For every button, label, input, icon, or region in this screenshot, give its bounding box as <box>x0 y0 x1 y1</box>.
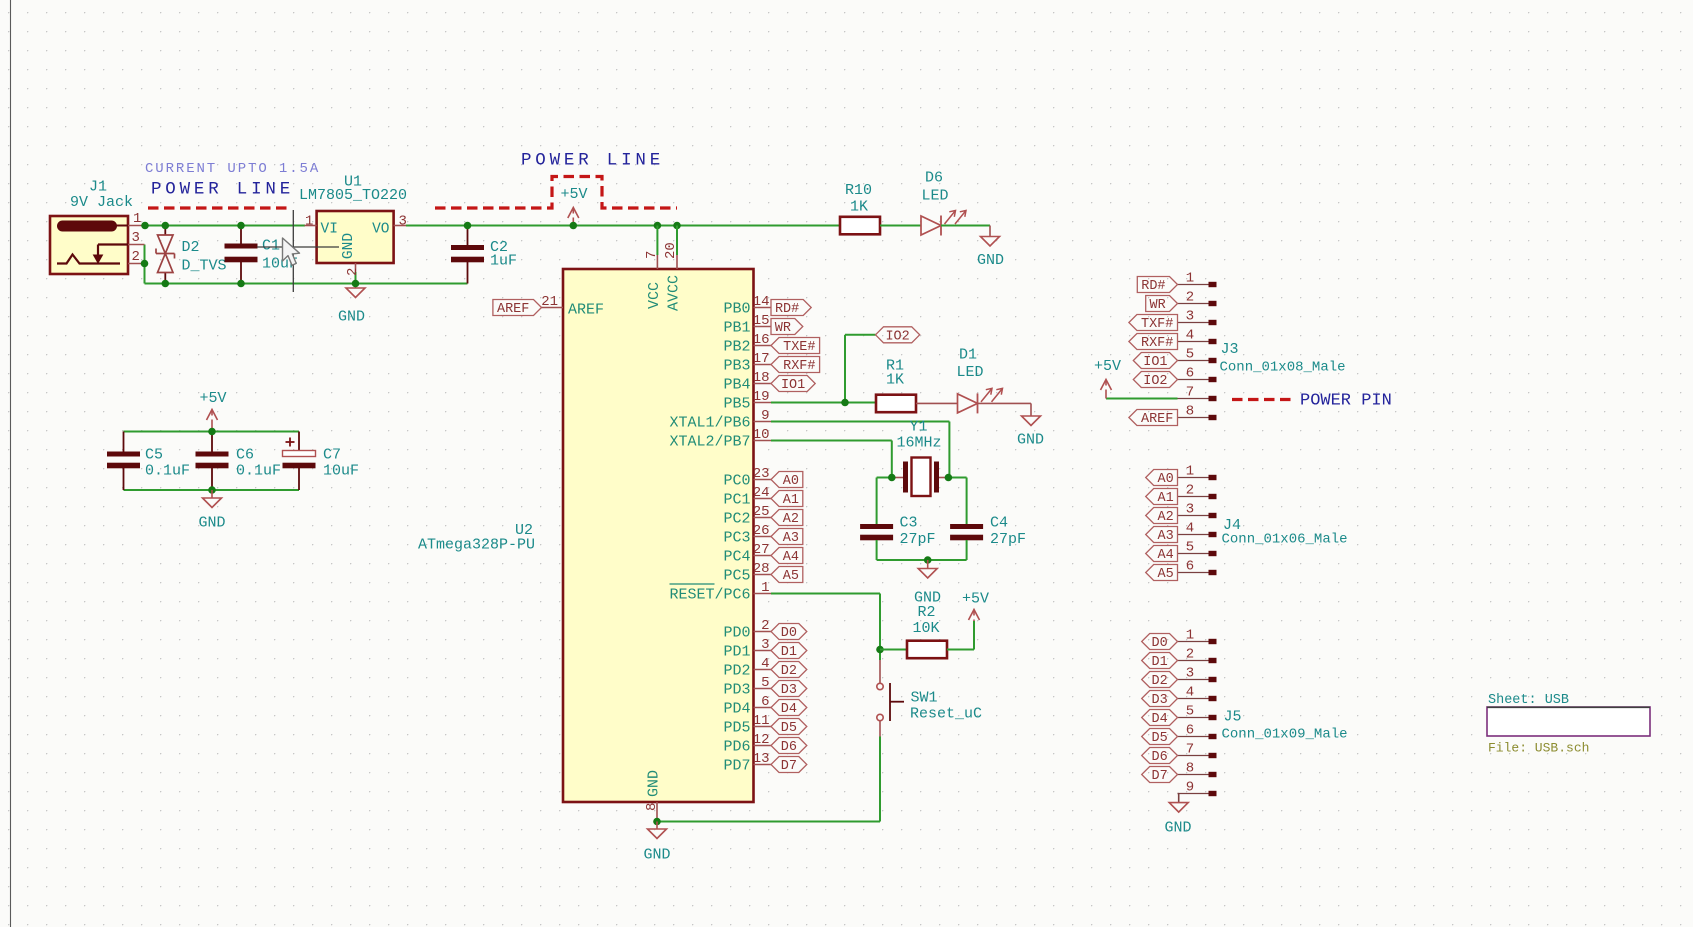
svg-text:+5V: +5V <box>200 390 227 407</box>
U2 pin 24 PC1 <box>754 498 772 500</box>
svg-text:Sheet: USB: Sheet: USB <box>1488 693 1569 708</box>
svg-text:GND: GND <box>1165 820 1192 837</box>
wire J1 pin1 to U1 VI <box>145 225 305 227</box>
svg-text:26: 26 <box>753 523 770 539</box>
capacitor C5 0.1uF <box>123 432 125 452</box>
J3 pin 6 label IO2 <box>1178 379 1209 381</box>
J5 pin 6 label D5 <box>1178 736 1209 738</box>
U2 pin 4 PD2 <box>754 669 772 671</box>
J5 pin 1 label D0 <box>1178 641 1209 643</box>
svg-text:15: 15 <box>753 313 770 329</box>
svg-text:0.1uF: 0.1uF <box>145 463 190 480</box>
LED D1 <box>958 394 978 413</box>
svg-text:D7: D7 <box>781 759 797 774</box>
J3 pin 8 label AREF <box>1178 417 1209 419</box>
svg-text:D6: D6 <box>781 740 797 755</box>
svg-text:LED: LED <box>957 364 984 381</box>
U2 pin 27 PC4 <box>754 555 772 557</box>
U1 pin 3 VO <box>394 225 406 227</box>
svg-text:Reset_uC: Reset_uC <box>910 706 982 723</box>
svg-text:11: 11 <box>753 713 770 729</box>
global label IO1 at U2 pin 18 <box>771 376 815 392</box>
svg-text:XTAL1/PB6: XTAL1/PB6 <box>669 415 750 432</box>
J1 pin 3 <box>128 244 145 246</box>
svg-text:D2: D2 <box>182 239 200 256</box>
U2 pin 23 PC0 <box>754 479 772 481</box>
svg-text:10K: 10K <box>913 620 940 637</box>
svg-text:IO1: IO1 <box>781 378 805 393</box>
svg-text:3: 3 <box>132 230 140 246</box>
U2 pin 26 PC3 <box>754 536 772 538</box>
LED D6 <box>921 216 941 235</box>
J5 pin 2 label D1 <box>1178 660 1209 662</box>
svg-text:RESET/PC6: RESET/PC6 <box>669 587 750 604</box>
svg-text:16: 16 <box>753 332 770 348</box>
wire bottom ground rail J1/D2/C1/GND/C2 <box>144 245 146 284</box>
svg-text:VI: VI <box>321 222 338 238</box>
ground symbol J5 <box>1169 803 1188 813</box>
J5 pin 5 label D4 <box>1178 717 1209 719</box>
wire SW1 to ground rail <box>879 721 881 737</box>
junction AVCC rail <box>673 222 681 230</box>
svg-text:4: 4 <box>1186 685 1194 701</box>
global label A1 at U2 pin 24 <box>771 491 803 507</box>
wire PB5 to R1 <box>771 402 876 404</box>
global label D6 at U2 pin 12 <box>771 738 807 754</box>
svg-text:PD7: PD7 <box>723 758 750 775</box>
svg-text:D6: D6 <box>925 170 943 187</box>
svg-text:D3: D3 <box>1151 693 1167 708</box>
svg-text:14: 14 <box>753 294 770 310</box>
svg-text:7: 7 <box>1186 742 1194 758</box>
global label A4 at U2 pin 27 <box>771 548 803 564</box>
svg-text:IO2: IO2 <box>1143 374 1167 389</box>
svg-text:WR: WR <box>775 321 791 336</box>
svg-text:D7: D7 <box>1151 769 1167 784</box>
wire XTAL2 to crystal left <box>771 440 892 442</box>
global label D3 at U2 pin 5 <box>771 681 807 697</box>
junction +5V rail <box>570 222 578 230</box>
svg-text:ATmega328P-PU: ATmega328P-PU <box>418 537 535 554</box>
junction J1 pin2 <box>141 260 149 268</box>
global label D7 at U2 pin 13 <box>771 757 807 773</box>
svg-text:C5: C5 <box>145 447 163 464</box>
global label WR at U2 pin 15 <box>771 319 803 335</box>
svg-text:D3: D3 <box>781 683 797 698</box>
svg-text:PD3: PD3 <box>723 682 750 699</box>
svg-text:C1: C1 <box>262 238 280 255</box>
svg-text:17: 17 <box>753 351 770 367</box>
U2 pin 5 PD3 <box>754 688 772 690</box>
wire R2 branch <box>880 649 907 651</box>
dashed power line (left segment) <box>148 206 291 209</box>
U2 pin 15 PB1 <box>754 326 772 328</box>
U2 pin 20 AVCC <box>676 226 678 256</box>
wire R2 to +5V <box>947 649 974 651</box>
J3 pin 5 label IO1 <box>1178 360 1209 362</box>
svg-text:21: 21 <box>541 294 558 310</box>
svg-text:2: 2 <box>345 268 361 276</box>
svg-text:27pF: 27pF <box>990 531 1026 548</box>
wire R1 to D1 <box>916 402 957 404</box>
svg-text:GND: GND <box>644 847 671 864</box>
svg-text:D4: D4 <box>1151 712 1167 727</box>
svg-text:A1: A1 <box>1157 491 1173 506</box>
J5 pin 4 label D3 <box>1178 698 1209 700</box>
global label D4 at U2 pin 6 <box>771 700 807 716</box>
J5 pin 9 to ground <box>1178 793 1209 795</box>
svg-text:D2: D2 <box>781 664 797 679</box>
U2 pin 3 PD1 <box>754 650 772 652</box>
svg-text:+5V: +5V <box>561 186 588 203</box>
svg-text:A0: A0 <box>1157 472 1173 487</box>
svg-text:C4: C4 <box>990 515 1008 532</box>
wire crystal left to C3 <box>877 477 892 479</box>
svg-text:D0: D0 <box>781 626 797 641</box>
svg-text:PC4: PC4 <box>723 549 750 566</box>
J4 pin 3 label A2 <box>1178 515 1209 517</box>
svg-text:AREF: AREF <box>568 302 604 319</box>
svg-text:A4: A4 <box>1157 548 1173 563</box>
U2 pin 17 PB3 <box>754 364 772 366</box>
svg-text:XTAL2/PB7: XTAL2/PB7 <box>669 434 750 451</box>
global label TXE# at U2 pin 16 <box>771 338 820 354</box>
U2 pin 1 RESET/PC6 <box>754 593 772 595</box>
ground symbol crystal <box>927 560 929 569</box>
junction J1 pin1 <box>141 222 149 230</box>
svg-text:Y1: Y1 <box>910 419 928 436</box>
svg-text:6: 6 <box>1186 723 1194 739</box>
U2 pin 8 GND bottom <box>656 802 658 822</box>
J3 pin 1 label RD# <box>1178 284 1209 286</box>
junction cap bank bottom <box>208 486 216 494</box>
diode D2 D_TVS <box>164 226 166 236</box>
global label D0 at U2 pin 2 <box>771 624 807 640</box>
svg-text:POWER LINE: POWER LINE <box>151 180 294 200</box>
svg-text:RD#: RD# <box>1141 279 1165 294</box>
svg-text:PC2: PC2 <box>723 511 750 528</box>
svg-text:1K: 1K <box>886 372 904 389</box>
svg-text:5: 5 <box>1186 347 1194 363</box>
svg-text:Conn_01x08_Male: Conn_01x08_Male <box>1220 360 1346 376</box>
U2 pin 21 AREF with global label AREF <box>493 300 542 316</box>
svg-text:GND: GND <box>646 770 663 797</box>
svg-text:7: 7 <box>1186 385 1194 401</box>
J4 pin 5 label A4 <box>1178 553 1209 555</box>
svg-text:VCC: VCC <box>646 282 663 309</box>
svg-text:27: 27 <box>753 542 770 558</box>
svg-text:R2: R2 <box>918 604 936 621</box>
svg-text:PB1: PB1 <box>723 320 750 337</box>
svg-text:PB0: PB0 <box>723 301 750 318</box>
wire crystal caps ground rail <box>877 559 967 561</box>
svg-text:PD2: PD2 <box>723 663 750 680</box>
junction U2 GND <box>653 818 661 826</box>
svg-text:6: 6 <box>1186 366 1194 382</box>
IC U2 ATmega328P-PU body <box>563 269 754 802</box>
junction crystal left <box>888 474 896 482</box>
junction RESET R2 branch <box>876 646 884 654</box>
junction crystal right <box>945 474 953 482</box>
svg-text:8: 8 <box>1186 761 1194 777</box>
ground symbol cap bank <box>211 490 213 498</box>
junction U1 GND <box>352 280 360 288</box>
junction C1 top <box>237 222 245 230</box>
sheet frame left border <box>10 0 12 927</box>
connector J1 9V Jack <box>50 216 128 274</box>
global label D1 at U2 pin 3 <box>771 643 807 659</box>
svg-text:GND: GND <box>977 252 1004 269</box>
svg-text:8: 8 <box>644 803 660 811</box>
U2 pin 6 PD4 <box>754 707 772 709</box>
svg-text:D_TVS: D_TVS <box>182 258 227 275</box>
ground symbol U2 <box>656 822 658 830</box>
wire cap bank bottom rail <box>124 489 300 491</box>
switch SW1 Reset_uC <box>877 683 883 689</box>
global label A5 at U2 pin 28 <box>771 567 803 583</box>
svg-text:10: 10 <box>753 427 770 443</box>
J5 pin 8 label D7 <box>1178 774 1209 776</box>
wire U2 GND to SW1 ground rail <box>657 821 880 823</box>
junction cap bank top <box>208 428 216 436</box>
resistor R2 10K <box>907 641 947 659</box>
U2 pin 7 VCC <box>656 226 658 256</box>
svg-text:GND: GND <box>338 309 365 326</box>
svg-text:3: 3 <box>761 637 769 653</box>
svg-text:3: 3 <box>399 214 407 230</box>
U2 pin 25 PC2 <box>754 517 772 519</box>
svg-text:25: 25 <box>753 504 770 520</box>
svg-text:TXE#: TXE# <box>783 340 815 355</box>
svg-text:TXF#: TXF# <box>1141 317 1173 332</box>
svg-text:D1: D1 <box>959 347 977 364</box>
U2 pin 12 PD6 <box>754 745 772 747</box>
svg-text:PC3: PC3 <box>723 530 750 547</box>
svg-text:D2: D2 <box>1151 674 1167 689</box>
svg-text:2: 2 <box>1186 647 1194 663</box>
svg-text:2: 2 <box>132 249 140 265</box>
power symbol +5V cap bank <box>211 420 213 432</box>
ground symbol below U1 <box>355 284 357 289</box>
dashed power line (middle segment with +5V bump) <box>435 177 677 209</box>
svg-text:2: 2 <box>1186 483 1194 499</box>
svg-text:1K: 1K <box>850 199 868 216</box>
U2 pin 2 PD0 <box>754 631 772 633</box>
J4 pin 1 label A0 <box>1178 477 1209 479</box>
svg-text:13: 13 <box>753 751 770 767</box>
svg-text:A3: A3 <box>783 531 799 546</box>
svg-text:27pF: 27pF <box>900 531 936 548</box>
crystal Y1 16MHz <box>892 477 905 479</box>
svg-text:PD4: PD4 <box>723 701 750 718</box>
svg-text:A5: A5 <box>1157 567 1173 582</box>
global label A3 at U2 pin 26 <box>771 529 803 545</box>
svg-text:24: 24 <box>753 485 770 501</box>
wire +5V to J3 pin 7 <box>1106 398 1178 400</box>
svg-text:LED: LED <box>922 188 949 205</box>
svg-text:GND: GND <box>1017 432 1044 449</box>
svg-text:A5: A5 <box>783 569 799 584</box>
global label RXF# at U2 pin 17 <box>771 357 820 373</box>
U2 pin 14 PB0 <box>754 307 772 309</box>
J5 pin 7 label D6 <box>1178 755 1209 757</box>
svg-text:4: 4 <box>761 656 769 672</box>
svg-text:3: 3 <box>1186 309 1194 325</box>
svg-text:3: 3 <box>1186 502 1194 518</box>
resistor R1 1K <box>876 395 916 413</box>
svg-text:PB3: PB3 <box>723 358 750 375</box>
U2 pin 9 XTAL1/PB6 <box>754 421 772 423</box>
svg-text:23: 23 <box>753 466 770 482</box>
svg-text:D5: D5 <box>781 721 797 736</box>
svg-text:Conn_01x06_Male: Conn_01x06_Male <box>1222 532 1348 548</box>
svg-text:A2: A2 <box>783 512 799 527</box>
svg-text:PD5: PD5 <box>723 720 750 737</box>
J1 pin 2 <box>128 263 145 265</box>
svg-text:9: 9 <box>761 408 769 424</box>
wire RESET/PC6 to SW1 <box>771 593 880 595</box>
U2 pin 10 XTAL2/PB7 <box>754 440 772 442</box>
svg-text:D1: D1 <box>1151 655 1167 670</box>
ground symbol at D1 <box>1022 416 1041 426</box>
svg-text:4: 4 <box>1186 328 1194 344</box>
svg-text:PD0: PD0 <box>723 625 750 642</box>
svg-text:1: 1 <box>133 211 141 227</box>
svg-text:WR: WR <box>1149 298 1165 313</box>
svg-text:1: 1 <box>305 214 313 230</box>
mouse cursor <box>283 238 300 265</box>
J5 pin 3 label D2 <box>1178 679 1209 681</box>
capacitor C7 10uF polarized <box>298 432 300 451</box>
svg-text:IO1: IO1 <box>1143 355 1167 370</box>
svg-text:A2: A2 <box>1157 510 1173 525</box>
svg-text:PB2: PB2 <box>723 339 750 356</box>
junction D2 bottom <box>162 280 170 288</box>
svg-text:A4: A4 <box>783 550 799 565</box>
svg-text:A1: A1 <box>783 493 799 508</box>
svg-text:GND: GND <box>341 233 357 259</box>
svg-text:LM7805_TO220: LM7805_TO220 <box>299 187 407 204</box>
resistor R10 1K <box>840 217 880 235</box>
wire +5V cap bank top rail <box>124 431 300 433</box>
J3 pin 4 label RXF# <box>1178 341 1209 343</box>
svg-text:D0: D0 <box>1151 636 1167 651</box>
U1 pin 2 GND <box>355 263 357 272</box>
capacitor C1 10uF <box>240 226 242 244</box>
U2 pin 16 PB2 <box>754 345 772 347</box>
svg-text:POWER PIN: POWER PIN <box>1300 392 1392 411</box>
U2 pin 19 PB5 <box>754 402 772 404</box>
svg-text:PB5: PB5 <box>723 396 750 413</box>
regulator U1 LM7805_TO220 <box>317 211 394 263</box>
junction C2 top <box>464 222 472 230</box>
wire crystal right to C4 <box>948 477 966 479</box>
svg-text:16MHz: 16MHz <box>897 435 942 452</box>
U1 pin 1 VI <box>305 225 317 227</box>
capacitor C3 27pF <box>860 524 893 529</box>
svg-text:D6: D6 <box>1151 750 1167 765</box>
svg-text:+5V: +5V <box>962 591 989 608</box>
svg-text:28: 28 <box>753 561 770 577</box>
global label D2 at U2 pin 4 <box>771 662 807 678</box>
wire PB5 branch to IO2 label <box>844 335 846 403</box>
svg-text:5: 5 <box>1186 540 1194 556</box>
svg-text:D5: D5 <box>1151 731 1167 746</box>
svg-text:J1: J1 <box>89 179 107 196</box>
wire R10 to D6 <box>880 225 921 227</box>
svg-text:AREF: AREF <box>497 302 529 317</box>
svg-text:D1: D1 <box>781 645 797 660</box>
svg-text:1: 1 <box>1186 464 1194 480</box>
svg-text:PB4: PB4 <box>723 377 750 394</box>
svg-text:VO: VO <box>372 222 389 238</box>
junction PB5 branch <box>841 399 849 407</box>
U2 pin 28 PC5 <box>754 574 772 576</box>
wire D1 to ground <box>978 402 1032 404</box>
junction D2 top <box>162 222 170 230</box>
svg-text:PC5: PC5 <box>723 568 750 585</box>
svg-text:1uF: 1uF <box>490 253 517 270</box>
power symbol +5V at R2 <box>973 620 975 622</box>
svg-text:19: 19 <box>753 389 770 405</box>
svg-text:9: 9 <box>1186 780 1194 796</box>
svg-text:J5: J5 <box>1224 709 1242 726</box>
svg-text:IO2: IO2 <box>885 330 909 345</box>
capacitor C2 1uF <box>467 226 469 246</box>
J4 pin 6 label A5 <box>1178 572 1209 574</box>
svg-text:Conn_01x09_Male: Conn_01x09_Male <box>1222 727 1348 743</box>
svg-text:7: 7 <box>644 251 660 259</box>
global label IO2 at PB5 branch <box>876 327 920 343</box>
svg-text:0.1uF: 0.1uF <box>236 463 281 480</box>
svg-text:1: 1 <box>761 580 769 596</box>
svg-text:4: 4 <box>1186 521 1194 537</box>
svg-text:PD6: PD6 <box>723 739 750 756</box>
J1 pin 1 <box>128 225 145 227</box>
junction C1 bottom <box>237 280 245 288</box>
svg-text:1: 1 <box>1186 271 1194 287</box>
svg-text:5: 5 <box>761 675 769 691</box>
svg-text:18: 18 <box>753 370 770 386</box>
U2 pin 11 PD5 <box>754 726 772 728</box>
svg-text:2: 2 <box>761 618 769 634</box>
global label A0 at U2 pin 23 <box>771 472 803 488</box>
svg-text:GND: GND <box>199 515 226 532</box>
svg-text:PC0: PC0 <box>723 473 750 490</box>
svg-text:C6: C6 <box>236 447 254 464</box>
svg-text:20: 20 <box>663 242 679 259</box>
editor crosshair <box>292 210 294 292</box>
global label A2 at U2 pin 25 <box>771 510 803 526</box>
dashed power pin legend line <box>1232 398 1294 401</box>
svg-text:+5V: +5V <box>1094 358 1121 375</box>
svg-text:6: 6 <box>1186 559 1194 575</box>
J3 pin 7 (+5V) <box>1178 398 1209 400</box>
svg-text:8: 8 <box>1186 404 1194 420</box>
svg-text:SW1: SW1 <box>911 690 938 707</box>
svg-text:2: 2 <box>1186 290 1194 306</box>
svg-text:3: 3 <box>1186 666 1194 682</box>
J3 pin 3 label TXF# <box>1178 322 1209 324</box>
svg-text:CURRENT UPTO 1.5A: CURRENT UPTO 1.5A <box>145 161 320 177</box>
power symbol +5V at J3 <box>1105 390 1107 399</box>
svg-text:AVCC: AVCC <box>666 275 683 311</box>
svg-text:10uF: 10uF <box>323 463 359 480</box>
svg-text:POWER LINE: POWER LINE <box>521 151 664 171</box>
svg-text:1: 1 <box>1186 628 1194 644</box>
ground symbol at D6 <box>981 237 1000 247</box>
svg-text:12: 12 <box>753 732 770 748</box>
